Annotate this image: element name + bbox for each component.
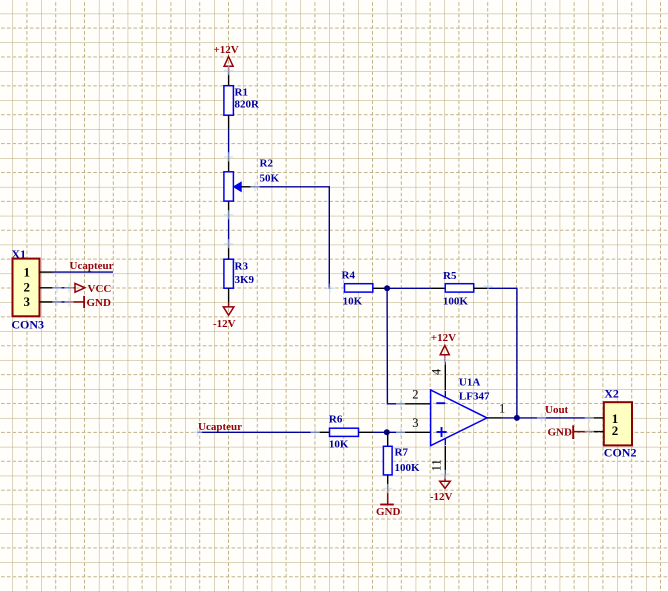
svg-text:R1: R1 [235,86,248,98]
svg-text:50K: 50K [260,172,280,184]
svg-text:100K: 100K [443,295,469,307]
pin X1-1 [40,271,54,273]
svg-text:1: 1 [499,401,505,415]
svg-text:R3: R3 [235,260,249,272]
connector X1 [11,247,44,332]
wire X1-1 Ucapteur [54,271,113,273]
op-amp U1A [431,377,490,446]
svg-text:820R: 820R [235,99,261,111]
pin 3 op-amp [401,431,431,433]
svg-text:3: 3 [24,294,31,309]
svg-text:2: 2 [24,279,31,294]
svg-text:1: 1 [24,264,31,279]
pin R5 right [474,287,488,289]
pin R2 wiper [241,186,256,188]
power port GND (R7) [376,490,401,518]
power port VCC [69,283,111,295]
svg-text:R4: R4 [342,270,356,282]
potentiometer R2 [224,158,280,202]
power port -12V (below R3) [213,302,236,330]
resistor R3 [224,259,255,288]
svg-text:+12V: +12V [214,44,239,56]
svg-text:GND: GND [548,426,573,438]
svg-text:Ucapteur: Ucapteur [198,421,242,433]
wire X1-3 [54,301,69,303]
power port +12V (top) [214,44,239,72]
resistor R1 [224,86,260,116]
pin R2 top [228,157,230,172]
pin 4 op-amp [444,362,446,390]
wire R6 to op-amp pin3 [373,431,401,433]
pin X2-2 [590,431,604,433]
pin 11 op-amp [444,446,446,476]
power port GND (X2) [548,425,590,439]
power port +12V (op-amp) [431,332,456,362]
wire R1 to R2 [228,130,230,157]
wire R4 to R5 [387,287,431,289]
svg-text:R7: R7 [395,446,409,458]
pin 2 op-amp [401,403,431,405]
wire R2 to R3 [228,216,230,245]
svg-text:2: 2 [412,387,418,401]
wire Ucapteur to R6 [198,431,316,433]
pin R2 bottom [228,201,230,215]
svg-text:VCC: VCC [88,283,112,295]
pin R6 left [315,431,329,433]
svg-text:-12V: -12V [213,318,236,330]
svg-text:3: 3 [412,416,418,430]
wire R2 wiper to R4 [256,187,330,288]
svg-text:X2: X2 [604,387,619,401]
svg-text:-12V: -12V [430,491,453,503]
pin X1-3 [40,301,54,303]
connection marker crosses [52,66,594,493]
pin R5 left [431,287,445,289]
wire output to X2 [502,417,590,419]
svg-text:11: 11 [430,459,444,471]
svg-text:R2: R2 [260,158,274,170]
svg-text:Ucapteur: Ucapteur [70,260,114,272]
svg-text:R6: R6 [329,413,343,425]
svg-text:GND: GND [87,297,112,309]
wire X1-2 [54,287,69,289]
svg-text:R5: R5 [443,270,457,282]
svg-text:10K: 10K [343,295,363,307]
wire junction to op-amp pin 2 [387,288,401,404]
junction node output [514,415,520,421]
pin X1-2 [40,287,54,289]
svg-text:10K: 10K [329,439,349,451]
pin R7 bottom [387,475,389,490]
pin R3 top [228,244,230,259]
svg-text:CON3: CON3 [11,318,44,332]
pin 1 op-amp output [487,417,502,419]
svg-text:2: 2 [612,423,619,438]
svg-text:100K: 100K [395,462,421,474]
svg-text:3K9: 3K9 [235,274,255,286]
power port GND (X1) [69,296,111,309]
svg-text:4: 4 [430,368,444,375]
svg-text:+12V: +12V [431,332,456,344]
pin R1 bottom [228,115,230,129]
wire +12V to R1 [228,72,230,86]
pin R7 top [387,432,389,446]
junction node R6/R7 [384,429,390,435]
resistor R7 [383,446,420,475]
svg-text:U1A: U1A [459,377,480,389]
pin X2-1 [590,417,604,419]
svg-text:LF347: LF347 [459,390,490,402]
svg-text:Uout: Uout [545,404,569,416]
wire R5 to output node [488,288,517,418]
pin R3 bottom [228,288,230,302]
svg-text:CON2: CON2 [604,446,637,460]
pin R4 right [373,287,387,289]
svg-text:GND: GND [376,506,401,518]
pin R6 right [359,431,373,433]
connector X2 [604,387,637,460]
power port -12V (op-amp) [430,475,453,503]
resistor R6 [329,413,359,450]
resistor R5 [443,270,474,308]
resistor R4 [342,270,373,308]
junction node R4/R5 [384,285,390,291]
